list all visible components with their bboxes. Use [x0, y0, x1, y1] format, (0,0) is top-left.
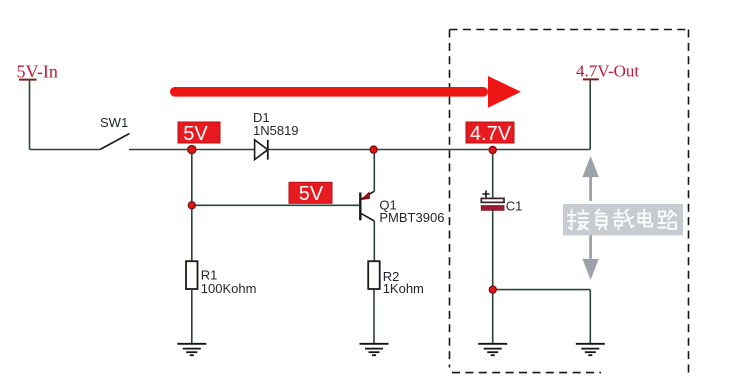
ground under R2	[360, 344, 389, 355]
wire input vertical	[29, 80, 31, 150]
resistor R1 body	[186, 261, 198, 289]
wire 4.7V node down to C1	[492, 150, 494, 199]
junction dot base branch node	[188, 202, 195, 209]
wire load return down	[589, 290, 591, 344]
svg-text:5V: 5V	[299, 183, 324, 205]
wire R2 to ground	[373, 289, 375, 344]
wire emitter up to rail	[373, 150, 375, 192]
glyph lu	[658, 211, 676, 230]
wire C1 down to bottom node	[492, 210, 494, 289]
svg-text:1Kohm: 1Kohm	[383, 281, 424, 296]
ground under R1	[177, 344, 206, 355]
wire R1 to ground	[191, 289, 193, 344]
wire switch to diode	[129, 149, 255, 151]
glyph jie	[568, 210, 589, 230]
wire bottom node to ground	[492, 290, 494, 344]
load text glyphs (接负载电路)	[568, 210, 676, 230]
gray down arrow from load	[582, 235, 598, 280]
probe label 4.7V box	[466, 122, 514, 145]
svg-text:PMBT3906: PMBT3906	[379, 210, 444, 225]
wire diode to output rail	[268, 149, 590, 151]
junction dot 5V node	[188, 146, 196, 154]
wire 5V node down branch	[191, 150, 193, 206]
transistor Q1 base bar	[359, 193, 361, 221]
glyph fu	[596, 210, 607, 230]
svg-text:4.7V-Out: 4.7V-Out	[576, 61, 639, 80]
junction dot bottom C1 node	[489, 286, 496, 293]
wire collector down to R2	[373, 221, 375, 261]
svg-text:4.7V: 4.7V	[470, 123, 512, 145]
dashed load-circuit box	[450, 30, 689, 375]
wire input horizontal to switch	[30, 149, 101, 151]
transistor Q1 collector diagonal	[361, 213, 374, 221]
diode D1 cathode bar	[267, 140, 269, 160]
glyph zai	[614, 210, 634, 230]
node 4.7V-Out port tick	[583, 78, 599, 80]
wire base branch horizontal	[192, 204, 360, 206]
capacitor C1 bottom plate	[481, 206, 504, 211]
glyph dian	[639, 210, 653, 227]
diode D1 triangle	[255, 140, 268, 160]
resistor R2 body	[368, 261, 380, 289]
switch SW1 blade	[100, 134, 130, 150]
capacitor C1 plus sign	[482, 190, 489, 197]
svg-text:C1: C1	[506, 198, 523, 213]
junction dot rail-emitter node	[370, 146, 377, 153]
ground under C1	[478, 344, 507, 355]
wire output port vertical	[589, 80, 591, 150]
svg-text:5V: 5V	[183, 123, 208, 145]
load text box 接负载电路	[563, 204, 683, 235]
wire bottom node to load return	[493, 289, 591, 291]
big red flow arrow	[170, 76, 521, 108]
gray up arrow to load	[582, 156, 598, 201]
wire node down to R1	[191, 205, 193, 261]
svg-text:100Kohm: 100Kohm	[201, 281, 257, 296]
junction dot 4.7V node	[489, 146, 496, 153]
probe label 5V box (rail)	[178, 122, 220, 145]
transistor Q1 emitter diagonal	[361, 191, 374, 199]
probe label 5V box (base)	[289, 182, 332, 205]
transistor Q1 emitter arrow	[362, 193, 370, 200]
ground load return	[576, 344, 605, 355]
capacitor C1 top plate	[481, 198, 504, 202]
svg-text:SW1: SW1	[100, 115, 128, 130]
node 5V-In port tick	[19, 79, 37, 81]
svg-text:1N5819: 1N5819	[253, 123, 299, 138]
